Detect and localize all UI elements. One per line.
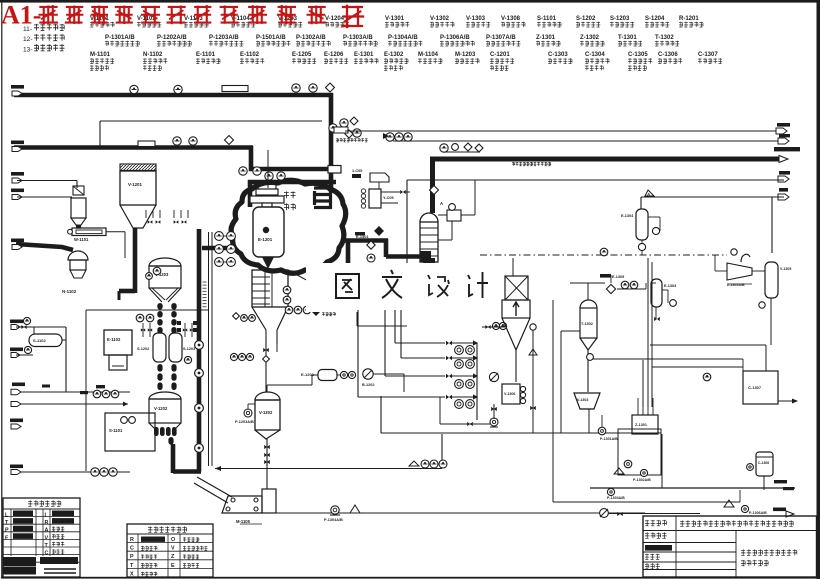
pipe outlet drop bbox=[384, 239, 389, 257]
diverter X-box above V-1102 bbox=[73, 186, 84, 195]
wash tower T-1302 bbox=[580, 300, 597, 308]
hopper V-1102 bbox=[71, 198, 86, 218]
svg-text:V-1201: V-1201 bbox=[128, 182, 142, 187]
svg-text:C-1305: C-1305 bbox=[628, 52, 648, 58]
svg-text:V-1306: V-1306 bbox=[504, 392, 515, 396]
svg-text:M-1203: M-1203 bbox=[455, 52, 476, 58]
svg-text:Z-1301: Z-1301 bbox=[635, 423, 647, 427]
feed flag F8 bbox=[12, 383, 25, 387]
wire vertical x561 bbox=[561, 330, 580, 332]
svg-text:S-1102: S-1102 bbox=[33, 338, 46, 343]
slag line rotated label bbox=[203, 281, 207, 283]
svg-text:V: V bbox=[171, 546, 175, 552]
svg-text:V: V bbox=[45, 535, 49, 541]
separator C-1306 group bbox=[756, 452, 773, 476]
pump pairs P-13xx bbox=[455, 346, 464, 355]
svg-text:S-1202: S-1202 bbox=[576, 16, 596, 22]
svg-text:1-C05: 1-C05 bbox=[352, 169, 362, 173]
svg-text:C: C bbox=[45, 551, 49, 557]
svg-text:C-1307: C-1307 bbox=[748, 385, 762, 390]
hopper V-1203 bbox=[149, 258, 181, 266]
wire vertical x553 bbox=[552, 300, 554, 502]
drawing border frame bottom bbox=[1, 577, 818, 579]
vacuum filter system C-1307 bbox=[743, 371, 778, 404]
wire long horizontal L3 bbox=[276, 512, 645, 514]
wire supply vertical V4 bbox=[400, 310, 402, 358]
pipe coal feed diagonal to mill bbox=[16, 244, 73, 250]
svg-text:C-1304: C-1304 bbox=[585, 52, 605, 58]
slag conveyor M-1105 bbox=[194, 477, 232, 503]
pipe into C-1201 bottom bbox=[386, 254, 424, 259]
wire T-1302 top header bbox=[570, 282, 605, 284]
svg-text:E-1305: E-1305 bbox=[612, 275, 624, 279]
wire overhead line B bbox=[393, 140, 784, 142]
pipe drop into cloud left bbox=[248, 180, 253, 207]
battery limit flags right edge bbox=[777, 123, 790, 127]
wire T-1201 side line bbox=[356, 300, 358, 326]
burner label text bbox=[284, 191, 296, 198]
svg-text:R-1201: R-1201 bbox=[679, 16, 699, 22]
feed flag F10 bbox=[10, 419, 23, 423]
small fittings above hoppers bbox=[145, 210, 147, 218]
svg-text:M-1104: M-1104 bbox=[418, 52, 439, 58]
pipe burner feed bar bbox=[248, 180, 336, 185]
svg-text:T-1301: T-1301 bbox=[618, 35, 637, 41]
wire C-1201 side bbox=[438, 239, 452, 241]
wire V-1302 discharge bbox=[266, 439, 268, 489]
quench column T-1201 bbox=[252, 270, 288, 307]
feed flag F7 bbox=[10, 348, 23, 352]
pipe gasifier outlet right bbox=[344, 238, 388, 243]
pipe main oxygen line P1 horizontal bbox=[14, 93, 333, 98]
instrument bubbles above burner bbox=[239, 167, 247, 175]
wire line D to V-1305 bbox=[641, 196, 784, 198]
filter S-1101 box bbox=[105, 413, 155, 451]
wire vertical x662 bbox=[661, 434, 663, 488]
valve box on pipe P1 bbox=[222, 86, 248, 92]
svg-text:V-1303: V-1303 bbox=[466, 16, 486, 22]
separator E-1303 group bbox=[600, 274, 611, 278]
svg-text:S-1101: S-1101 bbox=[109, 428, 123, 433]
wire long horizontal L1 bbox=[381, 432, 661, 434]
svg-text:T-1302: T-1302 bbox=[581, 322, 593, 326]
mill N-1102 bbox=[68, 251, 88, 260]
wire recycle drop at x407 bbox=[406, 180, 408, 264]
svg-text:X: X bbox=[130, 571, 134, 577]
wire E-1202 piping bbox=[266, 385, 268, 392]
wire T-1201 bottom lines bbox=[265, 344, 267, 392]
feed flag F2 bbox=[11, 141, 24, 145]
svg-text:E-1102: E-1102 bbox=[107, 337, 121, 342]
svg-text:P-1306A/B: P-1306A/B bbox=[749, 511, 767, 515]
watermark white band bbox=[306, 263, 507, 312]
watermark text tu wen she ji bbox=[336, 274, 359, 298]
svg-text:E-1304: E-1304 bbox=[621, 214, 634, 218]
wire vertical x533 from cyclone bbox=[532, 327, 534, 433]
vessel V-1306 with pump bbox=[502, 384, 520, 404]
svg-text:P-1203A/B: P-1203A/B bbox=[235, 420, 254, 424]
svg-text:R: R bbox=[45, 520, 49, 526]
svg-text:E-1201: E-1201 bbox=[258, 237, 273, 242]
svg-text:W-1101: W-1101 bbox=[74, 237, 89, 242]
instruments at hopper V-1203 bbox=[153, 267, 161, 275]
svg-text:P-1302A/B: P-1302A/B bbox=[633, 478, 651, 482]
slag hopper V-1202 bbox=[149, 392, 181, 399]
pipe long product line horizontal bbox=[430, 157, 779, 162]
exchanger E-1202 drum bbox=[318, 370, 337, 381]
svg-text:P-1303A/B: P-1303A/B bbox=[607, 496, 625, 500]
pump P-1304 on L3 bbox=[331, 506, 339, 514]
svg-text:Z-1302: Z-1302 bbox=[580, 35, 600, 41]
lock hopper valve manifolds bbox=[142, 323, 144, 337]
mixer Z-1301 bbox=[632, 415, 658, 434]
svg-text:P-1203A/B: P-1203A/B bbox=[209, 35, 239, 41]
svg-text:P-1303A/B: P-1303A/B bbox=[343, 35, 373, 41]
exchanger E-1206 bbox=[369, 189, 381, 208]
instrument bubbles left of gasifier bbox=[215, 232, 224, 241]
svg-text:V-1302: V-1302 bbox=[259, 410, 273, 415]
pipe P2 run to gasifier bbox=[249, 167, 330, 172]
svg-text:E-1206: E-1206 bbox=[324, 52, 344, 58]
svg-text:C-1306: C-1306 bbox=[758, 461, 769, 465]
svg-text:V-1202: V-1202 bbox=[154, 406, 168, 411]
svg-text:B-1202: B-1202 bbox=[362, 383, 374, 387]
wire burner feed vertical bbox=[267, 150, 269, 188]
svg-text:R: R bbox=[130, 537, 134, 543]
svg-text:Y-C05: Y-C05 bbox=[383, 196, 394, 200]
svg-text:O: O bbox=[171, 537, 175, 543]
pipe P1 riser vertical bbox=[329, 93, 334, 192]
feed flag F12 small bars bbox=[42, 385, 50, 388]
wire supply vertical V2 bbox=[384, 310, 386, 376]
slag discharge valves bbox=[154, 427, 159, 436]
svg-text:E-1205: E-1205 bbox=[292, 52, 312, 58]
instruments above product pipe bbox=[440, 144, 448, 152]
svg-text:N-1102: N-1102 bbox=[62, 289, 77, 294]
svg-text:E-1101: E-1101 bbox=[196, 52, 216, 58]
pipe V-1201 downcomer bbox=[133, 228, 138, 293]
flash vessel V-1302 bbox=[255, 392, 280, 400]
svg-text:S-1101: S-1101 bbox=[537, 16, 557, 22]
svg-text:E: E bbox=[171, 563, 175, 569]
svg-text:Z-1301: Z-1301 bbox=[536, 35, 556, 41]
pipe slag long vertical left of T-1201 bbox=[197, 229, 202, 472]
svg-text:C-1303: C-1303 bbox=[548, 52, 568, 58]
syngas column C-1201 bbox=[420, 213, 438, 222]
svg-text:V-1301: V-1301 bbox=[385, 16, 405, 22]
equipment parameter code table bbox=[127, 524, 213, 577]
svg-text:A: A bbox=[45, 528, 49, 534]
exchanger E-1205 bbox=[370, 173, 389, 182]
feed flag F1 bbox=[11, 85, 24, 89]
instrument bubbles on slag line bbox=[195, 341, 204, 350]
svg-text:P-1306A/B: P-1306A/B bbox=[440, 35, 470, 41]
svg-text:P-1501A/B: P-1501A/B bbox=[256, 35, 286, 41]
lock hopper S-1202 bbox=[153, 333, 166, 362]
wire chute diagonal bbox=[288, 270, 330, 282]
instrument cluster at P1 riser bbox=[329, 124, 337, 132]
title block table bbox=[643, 516, 817, 577]
fittings at C-1201 top bbox=[430, 186, 439, 195]
pipe cloud top link bbox=[202, 246, 234, 251]
svg-text:P-1304A/B: P-1304A/B bbox=[324, 518, 343, 522]
A flag and instruments on L2 bbox=[409, 461, 419, 466]
gasifier R-1201 cloud boundary bbox=[231, 180, 346, 273]
svg-text:P-1301A/B: P-1301A/B bbox=[600, 437, 618, 441]
pipe product line corner vertical into C-1201 bbox=[430, 157, 435, 213]
svg-text:P: P bbox=[130, 554, 134, 560]
instruments on pipe P2 bbox=[138, 141, 155, 147]
svg-text:E-1302: E-1302 bbox=[384, 52, 404, 58]
gasifier vessel body bbox=[253, 207, 284, 257]
feed flag F6 bbox=[10, 320, 23, 324]
pipe slag bottom U to V-1202 bbox=[173, 469, 201, 474]
svg-text:C-1307: C-1307 bbox=[698, 52, 718, 58]
instruments on pipe P1 bbox=[130, 85, 138, 93]
instruments on overhead line bbox=[386, 133, 394, 141]
control parameter code table bbox=[3, 498, 80, 577]
drawing border frame left bbox=[1, 2, 2, 577]
valve cluster at cyclone left bbox=[485, 325, 490, 329]
feed flag F9 bbox=[11, 402, 21, 407]
svg-text:E-1102: E-1102 bbox=[240, 52, 260, 58]
svg-text:P-1304A/B: P-1304A/B bbox=[388, 35, 418, 41]
wire vertical x213 and section boundary bbox=[208, 232, 210, 466]
instruments mid lock section bbox=[184, 356, 191, 363]
svg-text:M-1101: M-1101 bbox=[90, 52, 111, 58]
svg-text:Z-1302A/B: Z-1302A/B bbox=[727, 283, 745, 287]
svg-text:T-1302: T-1302 bbox=[655, 35, 674, 41]
wire supply vertical V3 bbox=[394, 310, 396, 343]
wire thin loop upper bbox=[100, 120, 322, 122]
lock valve chain upper right bbox=[171, 303, 176, 310]
instruments bottom left row bbox=[91, 468, 99, 476]
svg-text:S-1203: S-1203 bbox=[183, 347, 195, 351]
drawing border frame right bbox=[817, 0, 820, 579]
svg-text:N-1102: N-1102 bbox=[143, 52, 163, 58]
pump P-1203 at V-1302 bbox=[244, 409, 252, 417]
feed flag F11 bbox=[10, 465, 23, 469]
funnel vessel V-1303 bbox=[574, 393, 600, 409]
fittings E-1301 area bbox=[375, 227, 383, 235]
svg-text:E-1303: E-1303 bbox=[664, 284, 676, 288]
supply line valves and arrows bbox=[446, 341, 452, 346]
svg-text:C-1201: C-1201 bbox=[490, 52, 510, 58]
wire bottom-right headers bbox=[590, 487, 795, 489]
svg-text:V-1308: V-1308 bbox=[501, 16, 521, 22]
product line number text bbox=[512, 162, 551, 166]
pipe P2 drop vertical bbox=[249, 146, 254, 171]
svg-text:S-1204: S-1204 bbox=[645, 16, 665, 22]
lock valve chain lower right bbox=[171, 364, 176, 372]
wire long verticals to mixer bbox=[647, 258, 649, 407]
pumps at E-1202 bbox=[340, 371, 347, 378]
line number label GB7043 bbox=[336, 138, 368, 142]
exchanger E-1304 bbox=[636, 209, 648, 240]
svg-text:P-1202A/B: P-1202A/B bbox=[157, 35, 187, 41]
feed flag F3 bbox=[11, 172, 24, 176]
splitter Z-1302 bbox=[727, 263, 752, 280]
wire S-1102 to E-1102 bbox=[62, 339, 66, 341]
svg-text:13-: 13- bbox=[23, 46, 33, 53]
svg-text:12-: 12- bbox=[23, 36, 33, 43]
svg-text:M-1105: M-1105 bbox=[236, 519, 251, 524]
washer cooler E-1102 box bbox=[104, 330, 132, 355]
svg-text:S-1203: S-1203 bbox=[610, 16, 630, 22]
svg-text:P: P bbox=[5, 528, 9, 534]
silo V-1201 bbox=[120, 164, 156, 171]
svg-text:P-1301A/B: P-1301A/B bbox=[105, 35, 135, 41]
svg-text:V-1305: V-1305 bbox=[780, 267, 791, 271]
pipe main line P2 horizontal bbox=[14, 145, 253, 150]
instruments on feed line F8 bbox=[93, 390, 101, 398]
heat exchange coil E-1203 bbox=[314, 186, 331, 189]
lock valve chain lower left bbox=[157, 364, 162, 372]
svg-text:A1-: A1- bbox=[1, 1, 41, 30]
burner assembly on gasifier top bbox=[256, 189, 278, 195]
lock hopper S-1203 bbox=[169, 333, 182, 362]
A connector flag on line D bbox=[645, 190, 654, 196]
pump P-1303 group bbox=[607, 488, 614, 495]
pump P-1301 bbox=[598, 427, 606, 435]
wire supply vertical V1 bbox=[357, 310, 359, 397]
svg-text:C-1306: C-1306 bbox=[658, 52, 678, 58]
svg-text:A: A bbox=[440, 201, 443, 206]
valves above lock hoppers bbox=[148, 220, 153, 224]
svg-text:V-1303: V-1303 bbox=[577, 398, 588, 402]
dash dot vent line bbox=[480, 254, 727, 256]
feed flag F5 bbox=[11, 239, 24, 243]
column V-1305 bbox=[765, 262, 778, 298]
feed flag F4 bbox=[11, 189, 24, 193]
wire recycle line C bbox=[407, 179, 784, 181]
svg-text:E-1301: E-1301 bbox=[354, 52, 374, 58]
svg-text:V-1204: V-1204 bbox=[325, 16, 345, 22]
wire long horizontal L2 bbox=[215, 468, 442, 470]
drawing border frame top bbox=[0, 0, 820, 3]
instruments right of T-1201 bbox=[283, 286, 291, 294]
recycle loop at Z-1301 bbox=[618, 429, 661, 475]
instruments near lock hoppers bbox=[136, 314, 144, 322]
weigh feeder W-1101 bbox=[72, 228, 106, 236]
wire supply header vertical bbox=[476, 343, 478, 397]
cyclone separator T-1301 bbox=[505, 276, 528, 300]
svg-text:P-1302A/B: P-1302A/B bbox=[296, 35, 326, 41]
lock valve chain upper left bbox=[157, 303, 162, 310]
svg-text:S-1202: S-1202 bbox=[137, 347, 149, 351]
pipe outlet stub down bbox=[346, 240, 351, 265]
wire overhead line A bbox=[345, 130, 782, 132]
svg-text:V-1302: V-1302 bbox=[430, 16, 450, 22]
svg-text:C: C bbox=[130, 546, 134, 552]
svg-text:P-1307A/B: P-1307A/B bbox=[486, 35, 516, 41]
separator S-1102 capsule bbox=[29, 334, 62, 347]
